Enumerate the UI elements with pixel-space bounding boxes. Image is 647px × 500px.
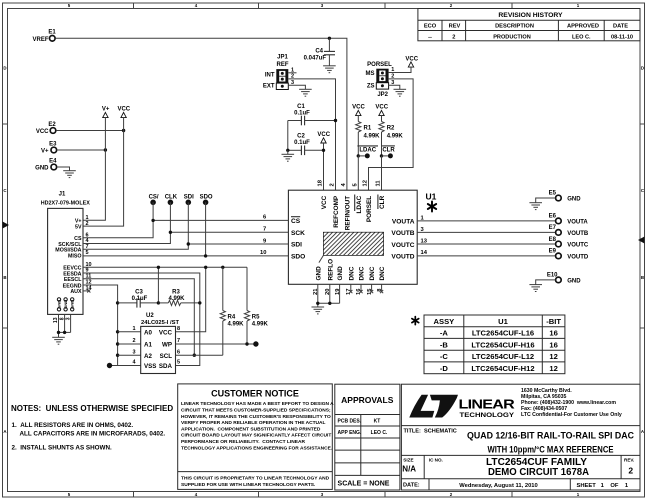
U1 left pin labels — [291, 217, 305, 261]
terminal E7 VOUTB — [549, 225, 589, 237]
svg-text:VREF: VREF — [32, 37, 48, 43]
svg-text:THIS CIRCUIT IS PROPRIETARY TO: THIS CIRCUIT IS PROPRIETARY TO LINEAR TE… — [181, 476, 330, 482]
U1 right pin labels — [391, 219, 414, 261]
ground (JP2 pin3) — [394, 89, 407, 96]
revision history table — [418, 9, 640, 41]
svg-text:VOUTC: VOUTC — [567, 243, 589, 249]
ground (J1) — [52, 337, 65, 344]
svg-text:REV.: REV. — [624, 457, 634, 462]
wire JP1 pin2 to REFCOMP — [288, 79, 335, 190]
svg-text:5V: 5V — [75, 224, 82, 230]
svg-text:GND: GND — [337, 266, 344, 281]
svg-text:U1: U1 — [498, 317, 508, 326]
svg-text:0.1uF: 0.1uF — [294, 140, 310, 146]
junction C1/REFCOMP — [334, 119, 337, 122]
svg-text:3: 3 — [65, 317, 71, 320]
J1 pin numbers — [86, 215, 93, 292]
U1 bottom pin labels — [315, 259, 386, 281]
svg-text:7: 7 — [177, 338, 180, 344]
U1 left pin numbers — [260, 215, 267, 257]
svg-text:A2: A2 — [144, 353, 152, 360]
svg-text:16: 16 — [549, 341, 557, 350]
svg-text:VCC: VCC — [159, 330, 173, 337]
svg-text:2: 2 — [133, 338, 136, 344]
testpoint LDAC — [357, 146, 378, 159]
wire U1 GND pins — [318, 284, 340, 307]
U2 pin numbers — [133, 326, 181, 366]
svg-text:CLR: CLR — [382, 148, 395, 154]
junction R1/LDAC — [357, 154, 360, 157]
resistor R4 4.99K — [220, 267, 244, 355]
wire JP2 pin1 to VCC — [389, 67, 411, 72]
svg-text:INT: INT — [265, 73, 275, 79]
U1 bottom pin numbers — [313, 288, 383, 295]
svg-text:10: 10 — [260, 250, 266, 256]
svg-text:R4: R4 — [228, 315, 236, 321]
svg-text:2: 2 — [628, 465, 633, 475]
terminal E10 GND — [547, 273, 581, 285]
svg-text:16: 16 — [549, 329, 557, 338]
svg-text:MS: MS — [366, 71, 375, 77]
svg-text:12: 12 — [363, 180, 369, 186]
svg-text:C4: C4 — [315, 49, 323, 55]
terminal VSS dot — [107, 363, 112, 368]
svg-text:GND: GND — [35, 166, 49, 172]
ground (U1) — [312, 307, 325, 314]
terminal WP dot — [253, 341, 258, 346]
svg-text:1630 McCarthy Blvd.: 1630 McCarthy Blvd. — [521, 388, 572, 394]
svg-text:LDAC​: LDAC​ — [356, 195, 363, 213]
svg-text:18: 18 — [318, 179, 324, 186]
svg-text:PRODUCTION: PRODUCTION — [493, 34, 531, 40]
wire EEVCC net — [83, 267, 247, 332]
wire VCC riser to J1 pin2 — [83, 118, 124, 227]
svg-text:EXT: EXT — [263, 84, 275, 90]
svg-text:VSS: VSS — [144, 363, 156, 370]
svg-text:SCK: SCK — [291, 230, 305, 237]
svg-text:GND: GND — [70, 300, 75, 309]
svg-text:PERFORMANCE OR RELIABILITY. C: PERFORMANCE OR RELIABILITY. CONTACT LINE… — [181, 439, 305, 445]
LT logo — [409, 395, 515, 419]
svg-text:C1: C1 — [297, 104, 305, 110]
ground (E5) — [529, 203, 542, 210]
junction C2 left / ground — [286, 149, 289, 152]
connector J1 HD2X7-079-MOLEX — [41, 191, 91, 314]
svg-text:SHEET 1 OF 1: SHEET 1 OF 1 — [577, 483, 629, 489]
svg-text:ZS: ZS — [367, 83, 375, 89]
svg-text:HOWEVER, IT REMAINS THE CUSTOM: HOWEVER, IT REMAINS THE CUSTOMER'S RESPO… — [181, 414, 331, 420]
wire JP2 pin3 to ground — [389, 85, 400, 89]
svg-text:CIRCUIT THAT MEETS CUSTOMER-SU: CIRCUIT THAT MEETS CUSTOMER-SUPPLIED SPE… — [181, 408, 331, 414]
terminal E3 V+ — [41, 142, 57, 155]
wire LDAC to U1 pin 5 — [357, 156, 359, 190]
svg-text:DNC: DNC — [379, 266, 386, 280]
svg-text:LEO C.: LEO C. — [572, 34, 591, 40]
svg-text:7: 7 — [263, 227, 266, 233]
svg-text:LTC2654CUF-H16: LTC2654CUF-H16 — [471, 341, 534, 350]
resistor R5 4.99K — [244, 267, 268, 344]
svg-text:C2: C2 — [297, 134, 305, 140]
svg-text:IC NO.: IC NO. — [429, 457, 443, 462]
svg-text:VOUTD: VOUTD — [391, 254, 414, 261]
svg-text:QUAD 12/16-BIT RAIL-TO-RAIL SP: QUAD 12/16-BIT RAIL-TO-RAIL SPI DAC — [467, 430, 634, 441]
customer notice box — [178, 384, 334, 490]
testpoint CLK — [165, 195, 178, 206]
J1 AUX no-connect stub — [83, 289, 90, 292]
wire E2 to VCC riser — [56, 130, 124, 132]
svg-text:2: 2 — [86, 221, 89, 227]
svg-text:Milpitas, CA 95035: Milpitas, CA 95035 — [521, 394, 566, 400]
svg-text:NOTES: UNLESS OTHERWISE SPECI: NOTES: UNLESS OTHERWISE SPECIFIED — [11, 404, 173, 413]
terminal E1 VREF — [32, 30, 56, 43]
svg-text:13: 13 — [53, 317, 59, 323]
svg-text:SCL: SCL — [160, 353, 173, 360]
svg-text:A1: A1 — [144, 342, 152, 349]
svg-text:DNC: DNC — [369, 266, 376, 280]
jumper JP2 PORSEL — [366, 62, 395, 98]
svg-text:C3: C3 — [135, 290, 143, 296]
wire VREF to REFIN/OUT — [55, 38, 347, 190]
svg-text:R1: R1 — [364, 126, 372, 132]
svg-text:AUX: AUX — [70, 289, 82, 295]
svg-text:VCC: VCC — [36, 129, 49, 135]
svg-text:ECO: ECO — [424, 24, 437, 30]
terminal E2 VCC — [36, 122, 57, 135]
svg-text:REFIN/OUT​: REFIN/OUT​ — [344, 196, 351, 231]
testpoint CS/ — [149, 195, 159, 206]
svg-text:GND: GND — [567, 196, 581, 202]
junction C4 tap — [328, 37, 331, 40]
op-amp U1 LTC2654 — [288, 190, 436, 284]
junction R2/CLR — [380, 154, 383, 157]
junction SCK — [169, 231, 172, 234]
svg-text:VCC: VCC — [352, 105, 365, 111]
svg-text:3: 3 — [133, 349, 136, 355]
svg-text:2: 2 — [452, 34, 455, 40]
svg-text:TECHNOLOGY: TECHNOLOGY — [460, 412, 515, 419]
wire SCK net — [83, 202, 288, 243]
svg-text:EESCL: EESCL — [64, 277, 82, 283]
resistor R2 4.99K — [379, 116, 403, 156]
wire down to ground — [287, 150, 289, 154]
svg-text:1. ALL RESISTORS ARE IN OHMS,: 1. ALL RESISTORS ARE IN OHMS, 0402. — [12, 422, 134, 429]
junction EESCL/SCL — [193, 354, 196, 357]
testpoint CLR — [382, 146, 396, 159]
junction J1 gnd bus — [57, 331, 60, 334]
junction R5/WP — [245, 342, 248, 345]
svg-text:VOUTC: VOUTC — [391, 242, 414, 249]
svg-text:REV: REV — [449, 24, 461, 30]
svg-text:VCC​: VCC​ — [321, 195, 328, 209]
svg-text:APP ENG.: APP ENG. — [338, 430, 362, 436]
svg-text:R3: R3 — [172, 290, 180, 296]
svg-text:LTC Confidential-For Customer: LTC Confidential-For Customer Use Only — [521, 412, 622, 418]
svg-text:JP2: JP2 — [377, 92, 388, 98]
power VCC (R1) — [352, 105, 365, 116]
ground (C4) — [323, 66, 336, 73]
svg-text:VOUTA: VOUTA — [392, 219, 415, 226]
svg-text:SUPPLIED FOR USE WITH LINEAR T: SUPPLIED FOR USE WITH LINEAR TECHNOLOGY … — [181, 482, 316, 488]
svg-text:LDAC: LDAC — [359, 148, 376, 154]
svg-text:D: D — [3, 66, 6, 71]
svg-text:PORSEL: PORSEL — [367, 62, 392, 68]
svg-text:MISO: MISO — [68, 254, 82, 260]
svg-text:J1: J1 — [59, 191, 66, 197]
junction EEGND chain — [116, 301, 119, 304]
wire V+ riser to J1 pin1 — [83, 118, 105, 221]
svg-text:APPROVALS: APPROVALS — [341, 395, 394, 405]
terminal E6 VOUTA — [549, 214, 589, 226]
svg-text:CIRCUIT BOARD LAYOUT MAY SIGNI: CIRCUIT BOARD LAYOUT MAY SIGNIFICANTLY A… — [181, 433, 331, 439]
svg-text:5: 5 — [177, 360, 180, 366]
testpoint SDI — [184, 195, 194, 206]
wire U2 WP row — [176, 343, 256, 345]
svg-text:GND: GND — [567, 278, 581, 284]
resistor R1 4.99K — [356, 116, 380, 156]
wire CLR to U1 pin 11 — [381, 156, 383, 190]
ground (C1/C2) — [282, 154, 295, 161]
junction R3/SDA — [198, 301, 201, 304]
svg-text:5: 5 — [86, 250, 89, 256]
ground (E4) — [63, 171, 76, 178]
capacitor C2 — [288, 134, 324, 156]
svg-text:0.1uF: 0.1uF — [294, 111, 310, 117]
resistor R3 4.99K — [158, 290, 199, 306]
power VCC (U1 pin18) — [317, 132, 330, 143]
svg-text:N/A: N/A — [402, 465, 416, 474]
svg-text:U2: U2 — [146, 313, 154, 319]
svg-text:VOUTD: VOUTD — [567, 254, 589, 260]
terminal E5 GND — [549, 191, 582, 203]
wire EESDA net — [83, 273, 200, 366]
svg-text:DATE:: DATE: — [403, 482, 420, 488]
svg-text:WP: WP — [162, 342, 172, 349]
capacitor C1 — [288, 104, 336, 125]
svg-text:APPROVED: APPROVED — [567, 24, 599, 30]
svg-text:PORSEL​: PORSEL​ — [366, 196, 373, 222]
U1 right pin numbers — [421, 215, 428, 256]
wire VCC to U1 pin 18 — [323, 143, 325, 190]
svg-text:KT: KT — [374, 419, 381, 425]
wire E3 to V+ riser — [57, 149, 106, 151]
terminal E8 VOUTC — [549, 237, 589, 249]
wire VOUTC row — [417, 243, 555, 245]
svg-text:SDA: SDA — [159, 363, 173, 370]
J1 gnd pin stubs 13/8/3 — [59, 314, 71, 337]
svg-text:Fax: (408)434-0507: Fax: (408)434-0507 — [521, 406, 567, 412]
power V+ arrow — [102, 107, 110, 118]
svg-text:12: 12 — [549, 364, 557, 373]
svg-text:DNC: DNC — [348, 266, 355, 280]
svg-text:CS: CS — [291, 218, 301, 225]
title block — [401, 384, 640, 490]
power VCC arrow — [117, 107, 130, 118]
J1 internal GND pins — [56, 298, 74, 311]
J1 pin labels — [55, 219, 82, 296]
svg-text:R5: R5 — [252, 315, 260, 321]
svg-text:ASSY: ASSY — [434, 317, 455, 326]
svg-text:8: 8 — [177, 326, 180, 332]
svg-text:HD2X7-079-MOLEX: HD2X7-079-MOLEX — [41, 200, 91, 206]
svg-text:VCC: VCC — [117, 107, 130, 113]
notes text — [11, 404, 173, 451]
svg-text:GND: GND — [63, 300, 68, 309]
IC U2 24LC025 — [141, 313, 180, 374]
svg-text:SIZE: SIZE — [403, 457, 413, 462]
junction C2/VCC — [322, 149, 325, 152]
svg-text:LINEAR: LINEAR — [459, 397, 516, 412]
wire VOUTB row — [417, 231, 555, 233]
svg-text:-A: -A — [440, 329, 449, 338]
svg-text:LEO C.: LEO C. — [371, 430, 388, 436]
wire VOUTA row — [417, 220, 555, 222]
svg-text:ALL CAPACITORS ARE IN MICROFAR: ALL CAPACITORS ARE IN MICROFARADS, 0402. — [20, 430, 166, 437]
junction E2/VCC — [122, 129, 125, 132]
junction EEVCC taps — [157, 266, 160, 269]
power VCC (JP2) — [405, 56, 418, 67]
svg-text:JP1: JP1 — [277, 55, 288, 61]
svg-text:CLR​: CLR​ — [379, 195, 386, 209]
junction E3/V+ — [104, 148, 107, 151]
wire JP1 pin1 stub — [288, 72, 296, 74]
U2 pin labels — [144, 330, 173, 371]
svg-text:LTC2654CUF-H12: LTC2654CUF-H12 — [471, 364, 534, 373]
terminal E9 VOUTD — [549, 249, 589, 261]
U1 top pin numbers — [318, 179, 382, 186]
svg-text:REVISION HISTORY: REVISION HISTORY — [498, 12, 563, 19]
svg-text:VCC: VCC — [317, 132, 330, 138]
svg-text:VCC: VCC — [375, 105, 388, 111]
svg-text:DNC: DNC — [359, 266, 366, 280]
svg-text:-D: -D — [440, 364, 449, 373]
terminal E4 GND — [35, 159, 57, 172]
svg-text:GND: GND — [56, 300, 61, 309]
svg-text:APPLICATION. COMPONENT SUBSTI: APPLICATION. COMPONENT SUBSTITUTION AND … — [181, 426, 321, 432]
svg-text:REF: REF — [277, 62, 289, 68]
svg-text:A0: A0 — [144, 330, 152, 337]
svg-text:24LC025-I /ST: 24LC025-I /ST — [141, 320, 179, 326]
svg-text:TITLE: SCHEMATIC: TITLE: SCHEMATIC — [404, 429, 457, 435]
svg-text:-C: -C — [440, 352, 449, 361]
svg-text:VOUTB: VOUTB — [567, 231, 589, 237]
svg-text:DESCRIPTION: DESCRIPTION — [495, 24, 534, 30]
svg-text:TECHNOLOGY APPLICATIONS ENGINE: TECHNOLOGY APPLICATIONS ENGINEERING FOR … — [181, 445, 333, 451]
svg-text:SDO: SDO — [291, 254, 305, 261]
jumper JP1 REF — [263, 55, 294, 90]
svg-text:B: B — [3, 275, 6, 280]
svg-text:B: B — [641, 275, 644, 280]
svg-text:14: 14 — [421, 250, 428, 256]
wire E10 to ground — [536, 280, 556, 285]
junction C3/R3 — [157, 301, 160, 304]
svg-text:U1: U1 — [426, 192, 437, 202]
svg-text:E5: E5 — [549, 191, 557, 197]
svg-text:V+: V+ — [41, 149, 49, 155]
junction GND bus — [316, 302, 319, 305]
svg-text:SCALE = NONE: SCALE = NONE — [338, 481, 390, 488]
svg-text:4.99K: 4.99K — [387, 133, 404, 139]
svg-text:VOUTB: VOUTB — [391, 230, 414, 237]
svg-text:LTC2654CUF-L12: LTC2654CUF-L12 — [472, 352, 534, 361]
U1 DNC stubs — [349, 284, 383, 293]
svg-text:08-11-10: 08-11-10 — [611, 34, 633, 40]
wire C1 left down to C2 — [287, 121, 289, 151]
svg-text:VERIFY PROPER AND RELIABLE OPE: VERIFY PROPER AND RELIABLE OPERATION IN … — [181, 420, 326, 426]
svg-text:PCB DES.: PCB DES. — [338, 419, 362, 425]
junction SDO — [204, 254, 207, 257]
wire U2 address stubs — [118, 332, 141, 355]
svg-text:-B: -B — [440, 341, 449, 350]
svg-text:2. INSTALL SHUNTS AS SHOWN.: 2. INSTALL SHUNTS AS SHOWN. — [12, 444, 113, 451]
svg-text:VOUTA: VOUTA — [567, 219, 588, 225]
ground (E10) — [529, 285, 542, 292]
wire JP1 pin3 to ground — [288, 85, 305, 89]
ground (JP1 pin3) — [299, 89, 312, 96]
wire E5 to ground — [536, 198, 556, 203]
svg-text:R2: R2 — [387, 126, 395, 132]
assy option table — [412, 315, 565, 374]
wire SDI net — [83, 202, 288, 249]
svg-text:SDI: SDI — [291, 242, 302, 249]
wire CS net — [83, 202, 288, 238]
svg-text:4.99K: 4.99K — [364, 133, 381, 139]
svg-text:LTC2654CUF-L16: LTC2654CUF-L16 — [472, 329, 534, 338]
svg-text:--: -- — [428, 34, 432, 40]
svg-text:12: 12 — [549, 352, 557, 361]
svg-text:1: 1 — [133, 326, 136, 332]
svg-text:6: 6 — [177, 349, 180, 355]
svg-text:CUSTOMER NOTICE: CUSTOMER NOTICE — [211, 388, 299, 398]
wire JP2 pin2 to U1 PORSEL — [369, 79, 414, 190]
svg-text:REFCOMP​: REFCOMP​ — [333, 195, 340, 228]
svg-text:LINEAR TECHNOLOGY HAS MADE A B: LINEAR TECHNOLOGY HAS MADE A BEST EFFORT… — [181, 401, 334, 407]
power VCC (R2) — [375, 105, 388, 116]
svg-text:11: 11 — [376, 180, 382, 187]
svg-text:4.99K: 4.99K — [252, 322, 269, 328]
svg-text:Phone: (408)432-1900 www.line: Phone: (408)432-1900 www.linear.com — [521, 400, 616, 406]
svg-text:4.99K: 4.99K — [228, 322, 245, 328]
approvals box — [335, 384, 400, 490]
wire E4 to ground — [57, 167, 70, 171]
svg-text:Wednesday, August 11, 2010: Wednesday, August 11, 2010 — [459, 483, 538, 489]
wire U2 SCL row — [176, 354, 223, 356]
wire EEGND net — [83, 285, 141, 366]
svg-text:WITH 10ppm/°C MAX REFERENCE: WITH 10ppm/°C MAX REFERENCE — [488, 444, 614, 455]
svg-text:DATE: DATE — [613, 24, 628, 30]
svg-text:REFLO: REFLO — [327, 259, 334, 281]
svg-text:D: D — [641, 66, 644, 71]
svg-text:VCC: VCC — [405, 56, 418, 62]
U1 exposed pad — [319, 232, 384, 262]
junction CS — [151, 219, 154, 222]
svg-text:DEMO CIRCUIT 1678A: DEMO CIRCUIT 1678A — [488, 467, 589, 478]
wire SDO net — [83, 202, 288, 256]
wire EESCL net — [83, 279, 194, 356]
svg-text:-BIT: -BIT — [546, 317, 561, 326]
svg-text:0.047uF: 0.047uF — [304, 56, 327, 62]
U1 top pin labels — [321, 195, 386, 231]
capacitor C4 — [304, 38, 335, 66]
svg-text:V+: V+ — [102, 107, 110, 113]
junction SDI — [187, 242, 190, 245]
testpoint SDO — [200, 195, 213, 206]
capacitor C3 0.1uF — [118, 290, 159, 308]
wire VOUTD row — [417, 255, 555, 257]
svg-text:GND: GND — [315, 266, 322, 281]
svg-text:2: 2 — [330, 183, 336, 186]
